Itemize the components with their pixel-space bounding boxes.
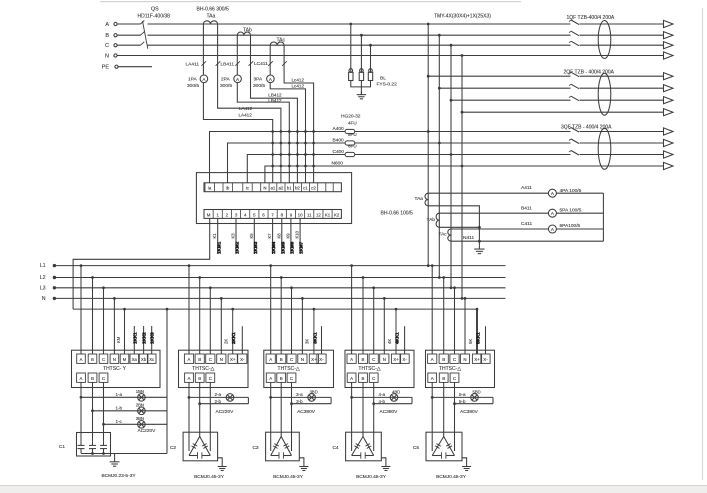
svg-text:3-b: 3-b (296, 399, 303, 404)
wire U3 lamp line b (290, 402, 331, 405)
wire neutral N main line (117, 55, 664, 57)
svg-text:1KK3: 1KK3 (150, 332, 155, 344)
svg-text:X-: X- (483, 357, 488, 362)
svg-text:THTSC-△: THTSC-△ (358, 366, 380, 372)
svg-text:A: A (350, 376, 353, 381)
svg-text:BCMJ0.45-3Y: BCMJ0.45-3Y (194, 474, 225, 480)
svg-text:10: 10 (298, 212, 303, 217)
controller U5 THTSC box (426, 350, 495, 387)
svg-text:C4: C4 (332, 445, 338, 451)
svg-text:C: C (209, 376, 212, 381)
svg-text:4FU: 4FU (348, 121, 357, 126)
lamp U5 indicator (459, 390, 481, 404)
label BH-0.66 100/5 (381, 211, 413, 217)
svg-text:300/5: 300/5 (220, 83, 232, 89)
bus N (42, 296, 506, 302)
svg-text:C: C (290, 357, 293, 362)
arrester BL-2 (359, 69, 363, 81)
svg-text:c1: c1 (303, 186, 308, 191)
svg-text:HG20-32: HG20-32 (341, 114, 361, 120)
wire LC411 TAc k-lead (268, 45, 305, 183)
ground C4 ground (381, 458, 390, 471)
wire N600 line (265, 165, 664, 183)
transformer TAa 100/5 (415, 193, 429, 206)
svg-text:6FU: 6FU (348, 144, 357, 149)
wire U1 lamp line 1-a (80, 396, 167, 399)
wire U1 phase feeds A B C N (80, 264, 116, 354)
svg-text:THTSC- Y: THTSC- Y (103, 366, 127, 372)
svg-text:A: A (188, 376, 191, 381)
controller U3 output terminals (266, 373, 296, 382)
capacitor C2 delta (189, 437, 210, 459)
svg-text:K8: K8 (276, 233, 281, 239)
svg-text:C400: C400 (333, 149, 345, 155)
bus L1 (40, 263, 506, 269)
svg-text:LB411: LB411 (221, 62, 235, 68)
node N incoming terminal (105, 54, 117, 60)
transformer TAc CT on phase C (270, 42, 284, 45)
svg-text:a2: a2 (278, 186, 283, 191)
wire 2QF branch B (438, 87, 664, 90)
wire U1 capacitor leads (81, 382, 104, 441)
svg-text:5K: 5K (468, 339, 473, 344)
arrow 1QF outgoing (664, 20, 674, 59)
lamp U4 indicator (379, 390, 401, 404)
wire control K8 (276, 218, 285, 254)
svg-text:C: C (372, 357, 375, 362)
svg-text:C: C (453, 357, 456, 362)
wire U2 phase feeds A B C N (188, 264, 223, 354)
controller U5 output terminals (428, 373, 459, 382)
lamp U1 3BN (116, 416, 146, 428)
label U1 control wire names (116, 332, 155, 344)
svg-text:Xb: Xb (141, 357, 147, 362)
label C400 (333, 149, 345, 155)
label U1 type (103, 366, 127, 372)
label U5 type (439, 366, 461, 372)
wire control K1 (212, 218, 221, 254)
label C2 rating (194, 474, 225, 480)
terminal block output row (204, 210, 341, 219)
label N600 (332, 161, 344, 167)
label U2 type (192, 366, 214, 372)
cable marker 2QF (598, 73, 611, 115)
svg-text:X+: X+ (474, 357, 480, 362)
wire U1 Xa Xb Xc stubs (134, 326, 151, 354)
svg-text:AC380V: AC380V (380, 409, 399, 415)
fuse 5FU (345, 132, 357, 145)
svg-text:3KK1: 3KK1 (312, 332, 317, 344)
svg-text:Xc: Xc (149, 357, 154, 362)
capacitor C1-2 (89, 441, 96, 453)
label U3 type (278, 366, 300, 372)
svg-text:1-a: 1-a (116, 392, 123, 397)
capacitor C1-3 (100, 441, 107, 453)
terminal block current/voltage row (204, 183, 341, 192)
svg-text:C: C (105, 43, 109, 49)
svg-text:K10: K10 (295, 230, 300, 238)
svg-text:C3: C3 (252, 445, 258, 451)
svg-text:B: B (91, 376, 94, 381)
svg-text:12: 12 (316, 212, 321, 217)
ammeter 4PA (548, 188, 581, 197)
svg-text:HD11F-400/38: HD11F-400/38 (138, 14, 171, 20)
svg-text:K7: K7 (267, 233, 272, 239)
svg-text:A: A (431, 376, 434, 381)
wire C411 meter line (451, 221, 603, 229)
svg-text:N: N (105, 54, 109, 60)
svg-text:N: N (220, 357, 223, 362)
wire N411 return (451, 235, 603, 241)
svg-text:BCMJ0.45-3Y: BCMJ0.45-3Y (356, 474, 387, 480)
arrester common wire (351, 81, 371, 95)
label BL FYS-0.22 (377, 75, 398, 87)
wire U2 capacitor leads (189, 382, 210, 451)
svg-text:BL: BL (380, 75, 386, 81)
svg-text:K1: K1 (325, 212, 331, 217)
svg-text:1KM1: 1KM1 (216, 241, 221, 254)
wire U1 M feed (123, 308, 126, 354)
wire control K9 (285, 218, 294, 254)
bus control 309 line (73, 308, 478, 310)
svg-text:AC220V: AC220V (138, 428, 157, 434)
label U5 control wire names (468, 332, 481, 344)
arrester BL-1 (349, 69, 353, 81)
svg-text:AC220V: AC220V (216, 409, 235, 415)
svg-text:Xa: Xa (132, 357, 138, 362)
page bottom edge band (0, 485, 707, 493)
svg-text:1PA: 1PA (188, 77, 198, 83)
wire U5 lamp line b (453, 402, 493, 405)
svg-text:K1: K1 (212, 233, 217, 239)
ammeter 5PA (548, 207, 581, 217)
svg-text:3PA: 3PA (254, 77, 264, 83)
svg-text:1KM2: 1KM2 (235, 241, 240, 254)
svg-text:b1: b1 (287, 186, 292, 191)
svg-text:11: 11 (307, 212, 312, 217)
wire U4 lamp line b (372, 402, 412, 405)
wire TAa return (428, 206, 481, 243)
wire PE line (118, 66, 152, 68)
svg-text:1KK1: 1KK1 (132, 332, 137, 344)
svg-text:TAa: TAa (207, 14, 216, 20)
svg-text:L1: L1 (40, 263, 46, 269)
svg-text:BH-0.66 100/5: BH-0.66 100/5 (381, 211, 413, 217)
svg-text:3QF TZB - 400/4 200A: 3QF TZB - 400/4 200A (561, 125, 612, 131)
wire U2 lamp line b (198, 402, 248, 405)
wire U4 lamp return (411, 397, 413, 403)
capacitor C3 delta (271, 437, 292, 459)
svg-text:Lc412: Lc412 (292, 84, 305, 89)
node bundle junctions row 1 (271, 130, 315, 133)
svg-text:4-a: 4-a (379, 392, 386, 397)
controller U2 input terminals (184, 354, 247, 363)
svg-text:3BD: 3BD (310, 390, 318, 395)
label A400 (333, 126, 345, 132)
wire U2 X+ feed (231, 308, 234, 354)
wire U3 X+ feed (313, 308, 316, 354)
wire U5 capacitor leads (432, 382, 454, 451)
node bundle junctions row 4 (271, 165, 315, 168)
svg-text:X+: X+ (311, 357, 317, 362)
svg-text:LA412: LA412 (239, 106, 253, 111)
svg-text:L2: L2 (40, 275, 46, 281)
label LA411 (186, 62, 200, 68)
svg-text:TMY-4X(30X4)+1X(25X3): TMY-4X(30X4)+1X(25X3) (434, 14, 491, 20)
svg-text:1-c: 1-c (116, 419, 123, 424)
wire LB412 TAb l-lead (249, 35, 298, 183)
breaker 2QF label (564, 70, 615, 76)
fuse 4FU (345, 121, 357, 134)
svg-text:3-a: 3-a (296, 392, 303, 397)
label LB411 (221, 62, 235, 68)
wire U1 lamp line 1-c (102, 423, 167, 426)
wire U3 X- stub (321, 326, 323, 354)
svg-text:1KM7: 1KM7 (299, 241, 304, 254)
wire U5 X+ feed (476, 308, 479, 354)
node PE terminal (102, 65, 118, 71)
controller U5 input terminals (428, 354, 491, 363)
wire phase A main line (117, 23, 664, 25)
svg-text:QS: QS (151, 7, 159, 13)
svg-text:TAc: TAc (439, 232, 448, 238)
svg-text:B: B (105, 33, 109, 39)
wire A-phase drop (427, 23, 430, 267)
transformer TAa CT on phase A (203, 21, 217, 24)
svg-text:BH-0.66 300/5: BH-0.66 300/5 (197, 7, 229, 13)
wire TAb return (439, 226, 481, 229)
transformer TAb label (243, 28, 252, 34)
cable marker 1QF (598, 21, 611, 59)
arrow 3QF outgoing (664, 128, 674, 170)
wire U5 phase feeds A B C N (431, 264, 467, 354)
svg-text:5BD: 5BD (473, 390, 481, 395)
svg-text:BCMJ0.45-3Y: BCMJ0.45-3Y (273, 474, 304, 480)
wire U5 lamp return (492, 397, 494, 403)
svg-text:THTSC-△: THTSC-△ (439, 366, 461, 372)
svg-text:N: N (113, 357, 116, 362)
wire 2QF branch N (461, 111, 664, 114)
wire A411 meter line (428, 185, 603, 193)
breaker 1QF poles (569, 20, 579, 46)
svg-text:LB412: LB412 (268, 92, 282, 97)
ammeter 2PA (220, 75, 241, 89)
svg-text:4PA 100/5: 4PA 100/5 (560, 188, 582, 194)
wire B411 meter line (439, 206, 603, 214)
svg-text:K2: K2 (334, 212, 340, 217)
svg-text:B400: B400 (333, 138, 345, 144)
lamp U1 1BN (116, 389, 146, 401)
svg-text:M: M (123, 357, 127, 362)
wire N drop (461, 54, 464, 300)
svg-text:C411: C411 (521, 221, 532, 227)
wire U3 lamp line a (269, 396, 331, 399)
switch QS 3-pole disconnect (141, 21, 148, 49)
svg-text:KM: KM (116, 336, 121, 343)
ground N411 ground (474, 241, 484, 253)
svg-text:N411: N411 (463, 235, 474, 241)
svg-text:A: A (80, 376, 83, 381)
bus L2 (40, 275, 506, 281)
wire 2QF branch C (450, 99, 664, 102)
svg-text:5-b: 5-b (459, 399, 466, 404)
svg-text:C1: C1 (59, 444, 65, 450)
wire C400 line (247, 153, 663, 183)
svg-text:AC380V: AC380V (460, 409, 479, 415)
wire B-phase drop (438, 34, 441, 279)
svg-text:X-: X- (319, 357, 324, 362)
svg-text:C5: C5 (413, 445, 419, 451)
controller U1 THTSC-Y box (72, 350, 161, 387)
controller U1 output terminals (77, 373, 108, 382)
controller U4 input terminals (347, 354, 409, 363)
svg-text:A: A (188, 357, 191, 362)
svg-text:5FU: 5FU (348, 132, 357, 137)
node C incoming terminal (105, 43, 117, 49)
ground C5 ground (462, 458, 471, 471)
svg-text:5KK1: 5KK1 (475, 332, 480, 344)
svg-text:PE: PE (102, 65, 110, 71)
svg-text:B: B (362, 376, 365, 381)
svg-text:A: A (269, 357, 272, 362)
wire B400 line (228, 142, 664, 183)
capacitor bank C1 box (59, 433, 111, 457)
svg-text:B: B (280, 376, 283, 381)
svg-text:300/5: 300/5 (253, 83, 265, 89)
svg-text:A400: A400 (333, 126, 345, 132)
svg-text:M: M (207, 212, 211, 217)
capacitor bank C5 box (413, 432, 462, 461)
svg-text:L3: L3 (40, 285, 46, 291)
wire 2QF branch A (427, 75, 664, 78)
svg-text:2-b: 2-b (215, 399, 222, 404)
switch QS label (138, 7, 171, 20)
svg-text:X-: X- (402, 357, 407, 362)
transformer TAc 100/5 (439, 229, 452, 241)
transformer TAc label (277, 38, 286, 44)
lamp U2 indicator (215, 392, 234, 404)
svg-text:N600: N600 (332, 161, 344, 167)
svg-text:C: C (372, 376, 375, 381)
wire U2 lamp line a (188, 396, 249, 399)
node bundle junctions row 2 (271, 142, 315, 145)
svg-text:1QF TZB-400/4 200A: 1QF TZB-400/4 200A (567, 15, 615, 21)
wire U4 X+ feed (395, 308, 398, 354)
ammeter 1PA (187, 75, 208, 89)
svg-text:A: A (105, 22, 109, 28)
wire U1 capacitor common (81, 452, 167, 455)
wire LA411 TAa k-lead (201, 24, 272, 183)
wire U4 X- stub (404, 326, 406, 354)
svg-text:BCMJ0.23-5-3Y: BCMJ0.23-5-3Y (101, 473, 136, 479)
label C1 rating (101, 473, 136, 479)
node B incoming terminal (105, 33, 117, 39)
svg-text:2KK1: 2KK1 (231, 332, 236, 344)
svg-text:2PA: 2PA (221, 77, 231, 83)
svg-text:N: N (383, 357, 386, 362)
label U4 voltage (380, 409, 399, 415)
controller U4 THTSC box (345, 350, 414, 387)
svg-text:A: A (269, 376, 272, 381)
svg-text:1KK2: 1KK2 (142, 332, 147, 344)
svg-text:AC380V: AC380V (297, 409, 316, 415)
label LC412 pair (292, 77, 305, 88)
svg-text:6PA100/5: 6PA100/5 (560, 223, 581, 229)
label C3 rating (273, 474, 304, 480)
svg-text:3K: 3K (305, 339, 310, 344)
page top edge line (100, 1, 521, 3)
svg-text:B: B (442, 357, 445, 362)
svg-text:C: C (209, 357, 212, 362)
svg-text:B: B (198, 357, 201, 362)
wire U5 X- stub (485, 326, 487, 354)
ammeter 6PA (548, 223, 580, 233)
label U4 control wire names (387, 332, 400, 344)
terminal block XT outer box (196, 173, 351, 224)
svg-text:B: B (442, 376, 445, 381)
svg-text:LC411: LC411 (254, 61, 268, 67)
wire control K5 (249, 218, 258, 254)
svg-text:A: A (350, 357, 353, 362)
label LA412 pair (239, 106, 253, 117)
svg-text:4KK1: 4KK1 (394, 332, 399, 344)
svg-text:A: A (431, 357, 434, 362)
svg-text:B: B (91, 357, 94, 362)
breaker 3QF poles (569, 128, 579, 156)
page right edge line (702, 8, 704, 480)
wire LC412 TAc l-lead (282, 45, 314, 183)
label U2 control wire names (224, 332, 237, 344)
svg-text:X-: X- (240, 357, 245, 362)
wire U3 lamp return (330, 397, 332, 403)
wire phase C main line (117, 44, 664, 46)
svg-text:X+: X+ (393, 357, 399, 362)
label LC411 (254, 61, 268, 67)
svg-text:2K: 2K (224, 339, 229, 344)
svg-text:K5: K5 (249, 233, 254, 239)
svg-text:N: N (463, 357, 466, 362)
label U3 voltage (297, 409, 316, 415)
svg-text:LA412: LA412 (239, 112, 253, 117)
svg-text:1KM5: 1KM5 (280, 241, 285, 254)
controller U4 output terminals (347, 373, 378, 382)
svg-text:4BD: 4BD (392, 390, 400, 395)
svg-text:A: A (80, 357, 83, 362)
ground C1 ground (110, 454, 120, 467)
node bundle junctions row 3 (271, 153, 315, 156)
svg-text:X+: X+ (230, 357, 236, 362)
transformer TAa label (197, 7, 229, 20)
breaker 3QF label (561, 125, 612, 131)
svg-text:FYS-0.22: FYS-0.22 (377, 82, 398, 88)
wire LB411 TAb k-lead (235, 35, 289, 183)
ground C2 ground (218, 458, 227, 471)
svg-text:N: N (263, 186, 266, 191)
svg-text:4K: 4K (387, 339, 392, 344)
svg-text:BCMJ0.45-3Y: BCMJ0.45-3Y (436, 474, 467, 480)
svg-text:B: B (280, 357, 283, 362)
wire U1 lamp line 1-b (91, 409, 167, 412)
arrester group BL feeders (349, 23, 372, 73)
wire control K10 (295, 218, 304, 254)
capacitor C5 delta (432, 437, 454, 459)
svg-text:TAb: TAb (427, 217, 436, 223)
svg-text:N: N (42, 296, 46, 302)
svg-text:B411: B411 (521, 206, 532, 212)
svg-text:C: C (290, 376, 293, 381)
arrester BL-3 (368, 69, 372, 81)
controller U3 input terminals (266, 354, 326, 363)
